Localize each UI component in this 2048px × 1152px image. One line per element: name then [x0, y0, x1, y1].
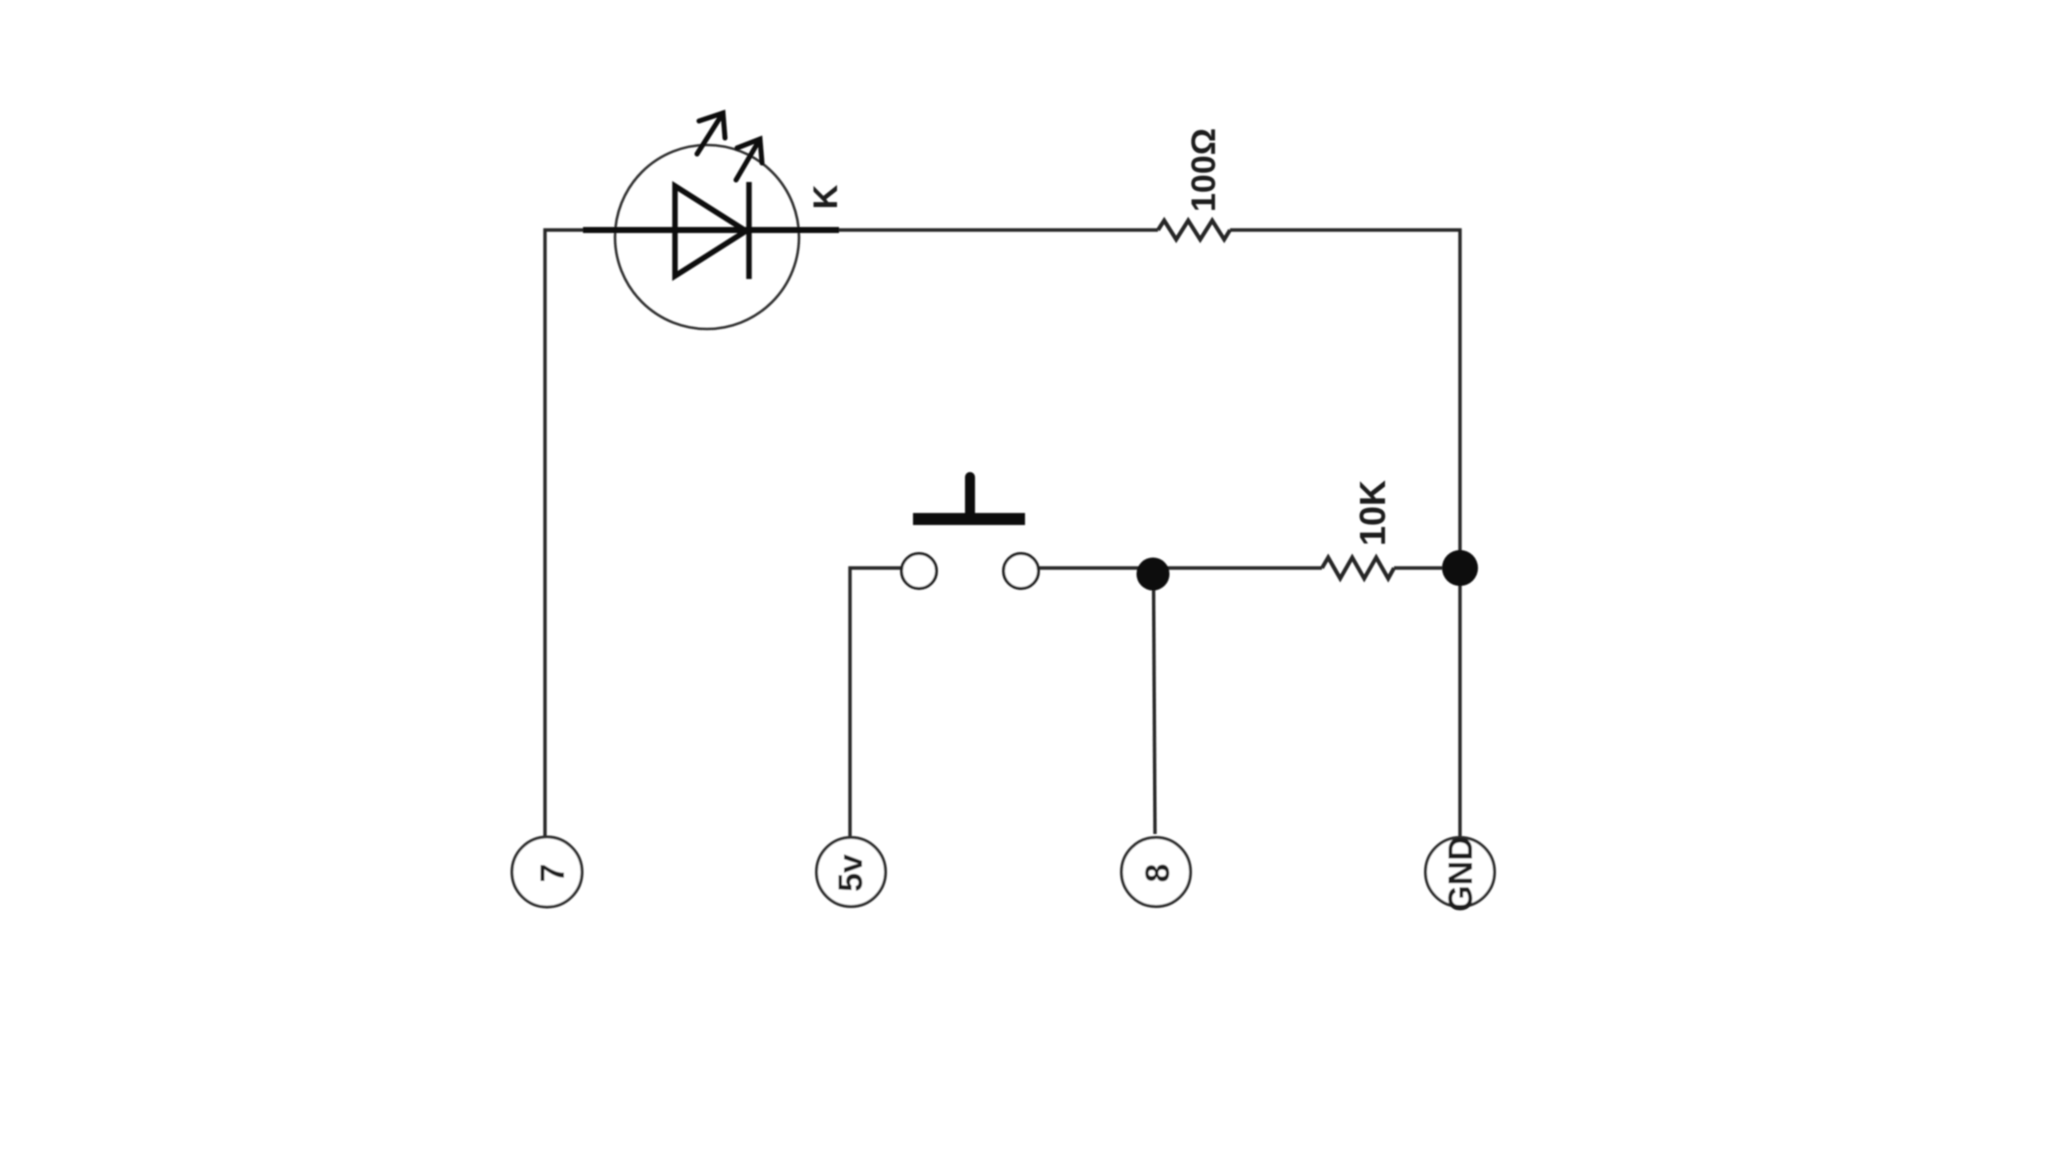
- svg-text:100Ω: 100Ω: [1185, 128, 1223, 212]
- svg-text:7: 7: [534, 864, 572, 883]
- svg-text:8: 8: [1139, 864, 1177, 883]
- svg-text:K: K: [807, 184, 845, 209]
- svg-text:10K: 10K: [1352, 480, 1393, 546]
- svg-text:5v: 5v: [832, 854, 870, 892]
- svg-text:GND: GND: [1442, 836, 1480, 912]
